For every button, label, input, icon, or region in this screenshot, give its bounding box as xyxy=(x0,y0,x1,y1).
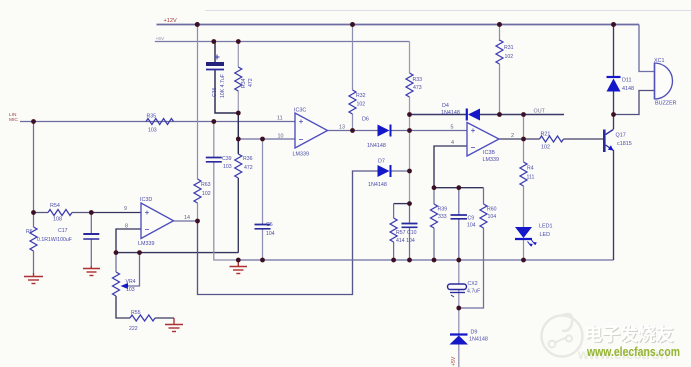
svg-text:+6V: +6V xyxy=(156,36,165,42)
svg-text:OUT: OUT xyxy=(534,109,546,115)
wire pin8 horizontal xyxy=(116,252,238,254)
svg-text:9: 9 xyxy=(124,206,127,212)
wire +6V corner down to R33 xyxy=(409,42,411,74)
resistor R31 xyxy=(496,40,514,64)
wire R33 bottom node vertical xyxy=(409,97,411,204)
resistor R34 xyxy=(235,67,254,91)
wire R60 branch xyxy=(483,188,485,204)
wire VR4 top xyxy=(115,253,117,272)
wire C17 branch xyxy=(90,213,92,234)
wire VR4 wiper xyxy=(128,253,140,286)
resistor R33 xyxy=(406,73,422,97)
resistor R36 xyxy=(235,154,253,178)
svg-text:CX2: CX2 xyxy=(468,281,478,287)
svg-text:102: 102 xyxy=(541,145,550,151)
wire IC3C output to D6 xyxy=(328,130,378,132)
potentiometer VR4 xyxy=(113,272,136,296)
svg-text:+12V: +12V xyxy=(164,18,177,24)
wire LED1 to rail xyxy=(523,239,525,260)
svg-text:R21: R21 xyxy=(541,132,551,138)
svg-text:111: 111 xyxy=(527,175,535,181)
wire D11 bottom xyxy=(613,92,615,115)
resistor R60 xyxy=(480,204,497,228)
wire pin9 line mid xyxy=(72,212,91,214)
svg-text:1N4148: 1N4148 xyxy=(441,110,460,116)
svg-text:R39: R39 xyxy=(438,207,448,213)
svg-text:www.elecfans.com: www.elecfans.com xyxy=(586,345,680,359)
wire CX2 branch xyxy=(458,260,460,284)
svg-text:C17: C17 xyxy=(58,228,68,234)
svg-text:+5V: +5V xyxy=(451,356,457,366)
diode D9 xyxy=(450,330,488,345)
wire VR4 bottom to R55 xyxy=(116,296,130,318)
svg-text:Q17: Q17 xyxy=(616,133,626,139)
svg-text:102: 102 xyxy=(202,191,211,197)
svg-text:4.7uF: 4.7uF xyxy=(467,289,480,295)
svg-text:R6: R6 xyxy=(26,229,33,235)
wire pin9 line left xyxy=(34,212,49,214)
svg-text:10: 10 xyxy=(278,134,284,140)
capacitor C6 xyxy=(255,222,275,237)
svg-text:IC3C: IC3C xyxy=(294,108,306,114)
svg-text:R4: R4 xyxy=(527,166,534,172)
svg-text:IC3B: IC3B xyxy=(483,150,495,156)
diode D11 xyxy=(607,77,635,92)
svg-text:XC1: XC1 xyxy=(654,58,665,64)
svg-text:VR4: VR4 xyxy=(126,279,136,285)
svg-text:414 104: 414 104 xyxy=(396,238,415,244)
svg-text:102: 102 xyxy=(505,54,514,60)
wire D6 cathode to pin5 xyxy=(392,130,468,132)
svg-text:R35: R35 xyxy=(147,114,157,120)
svg-text:333: 333 xyxy=(438,214,447,220)
svg-text:R55: R55 xyxy=(131,310,141,316)
svg-text:R63: R63 xyxy=(201,182,211,188)
wire IC3B output line xyxy=(499,138,540,140)
LED LED1 xyxy=(515,224,553,247)
wire C9 bottom xyxy=(458,219,460,260)
svg-text:D11: D11 xyxy=(622,78,632,84)
wire C10 bottom xyxy=(409,228,411,261)
svg-text:LM339: LM339 xyxy=(138,241,154,247)
diode D7 xyxy=(368,159,391,189)
wire +12V to R63 xyxy=(197,25,199,180)
ground at R55 xyxy=(165,318,183,332)
svg-text:104: 104 xyxy=(467,223,476,229)
capacitor C39 xyxy=(206,156,232,170)
wire R60 bottom long xyxy=(459,228,484,308)
wire R24 to LED1 xyxy=(523,186,525,227)
wire D9 bottom stub xyxy=(458,345,460,367)
resistor R55 xyxy=(129,310,155,332)
wire D4 line OUT xyxy=(410,114,467,116)
svg-text:103: 103 xyxy=(148,128,157,134)
svg-text:D9: D9 xyxy=(471,330,478,336)
diode D6 xyxy=(362,117,391,150)
svg-text:473: 473 xyxy=(413,85,422,91)
wire D7 cathode to node xyxy=(392,170,410,172)
wire R39 top xyxy=(433,188,435,204)
svg-text:LM339: LM339 xyxy=(483,157,499,163)
svg-text:104: 104 xyxy=(266,231,275,237)
svg-text:1N4148: 1N4148 xyxy=(367,143,386,149)
svg-text:电子发烧友: 电子发烧友 xyxy=(585,324,674,345)
buzzer XC1 xyxy=(654,58,677,107)
wire R36 bottom vertical xyxy=(237,178,239,253)
wire ground rail xyxy=(238,259,613,261)
svg-text:2: 2 xyxy=(511,133,514,139)
wire Q17 emitter to rail xyxy=(613,150,615,260)
resistor R39 xyxy=(431,204,448,228)
watermark logo circle xyxy=(542,314,583,356)
svg-text:C39: C39 xyxy=(222,156,232,162)
ground at R6 xyxy=(24,273,43,284)
resistor R6 xyxy=(26,227,72,251)
wire R6 bottom to ground xyxy=(33,251,35,273)
wire D4 anode to OUT end xyxy=(480,114,564,116)
wire C39 bottom to rail xyxy=(214,162,239,260)
wire OUT to IC3B out xyxy=(523,115,525,140)
svg-text:BUZZER: BUZZER xyxy=(655,101,677,107)
wire IC3D output xyxy=(174,220,198,222)
resistor R63 xyxy=(194,179,211,203)
svg-text:C36: C36 xyxy=(212,87,218,97)
svg-text:LED: LED xyxy=(540,232,551,238)
wire C36 top xyxy=(214,42,216,63)
wire pin10 line xyxy=(238,138,295,140)
op-amp IC3B xyxy=(451,123,515,164)
svg-text:102: 102 xyxy=(357,102,366,108)
+6V rail xyxy=(155,41,410,43)
wire C36 bottom L xyxy=(215,70,238,114)
svg-text:104: 104 xyxy=(488,214,497,220)
transistor Q17 xyxy=(603,129,632,152)
svg-text:R32: R32 xyxy=(356,93,366,99)
wire MIC input line xyxy=(20,121,295,123)
wire Q17 collector vertical xyxy=(613,115,615,130)
capacitor C9 xyxy=(451,215,476,229)
diode D4 xyxy=(441,103,480,121)
svg-text:108: 108 xyxy=(53,217,62,223)
svg-text:13: 13 xyxy=(339,125,345,131)
wire R58 bottom xyxy=(393,242,395,260)
svg-text:11: 11 xyxy=(277,116,283,122)
svg-text:0.1R1W/100uF: 0.1R1W/100uF xyxy=(37,237,72,243)
wire RC block top line xyxy=(434,187,484,189)
capacitor CX2 xyxy=(448,281,481,297)
resistor R54 xyxy=(48,203,72,223)
wire IC3D out down and right to D7 xyxy=(198,171,378,295)
wire D11 top xyxy=(613,25,615,78)
svg-text:D7: D7 xyxy=(378,159,385,165)
svg-text:D4: D4 xyxy=(442,103,449,109)
wire R34 bottom xyxy=(237,91,239,113)
svg-text:222: 222 xyxy=(129,326,138,332)
ground at C17 xyxy=(83,266,100,276)
resistor R58 and cap C10 xyxy=(390,218,417,244)
svg-text:R36: R36 xyxy=(243,156,253,162)
wire R6 top xyxy=(33,213,35,228)
wire R21 to Q17 base xyxy=(564,138,604,140)
op-amp IC3C xyxy=(277,108,345,158)
top page border line xyxy=(205,10,691,12)
wire pin9 line to IC3D xyxy=(91,212,141,214)
svg-text:5: 5 xyxy=(451,125,454,131)
svg-text:LM339: LM339 xyxy=(293,152,309,158)
capacitor C17 xyxy=(58,228,99,239)
wire CX2 to D9 node xyxy=(458,290,460,335)
svg-text:R60: R60 xyxy=(487,207,497,213)
+12V rail xyxy=(157,24,640,26)
svg-text:8: 8 xyxy=(125,224,128,230)
node MIC label xyxy=(9,112,18,123)
svg-text:R34: R34 xyxy=(241,78,247,88)
svg-text:1N4148: 1N4148 xyxy=(469,337,488,343)
svg-text:LED1: LED1 xyxy=(539,224,553,230)
svg-text:R33: R33 xyxy=(413,77,423,83)
wire +12V to R31 xyxy=(499,25,501,42)
svg-text:10K 4.7uF: 10K 4.7uF xyxy=(220,74,226,98)
resistor R24 xyxy=(520,162,534,186)
wire R58 C10 top line xyxy=(394,203,410,205)
svg-text:103: 103 xyxy=(223,164,232,170)
op-amp IC3D xyxy=(124,197,190,247)
wire R32 to IC3C out xyxy=(352,114,354,131)
svg-text:c1815: c1815 xyxy=(617,141,632,147)
svg-text:472: 472 xyxy=(244,165,253,171)
svg-text:472: 472 xyxy=(248,78,254,87)
watermark chinese text xyxy=(585,324,675,346)
svg-text:1N4148: 1N4148 xyxy=(368,182,387,188)
svg-text:IC3D: IC3D xyxy=(140,197,152,203)
wire left divider vertical xyxy=(33,122,35,213)
svg-text:C9: C9 xyxy=(468,216,475,222)
svg-text:R57 C10: R57 C10 xyxy=(396,230,417,236)
wire C6 bottom xyxy=(262,229,264,260)
wire C6 branch xyxy=(262,139,264,224)
wire R63 to IC3D out xyxy=(197,203,199,221)
wire +12V corner to buzzer top xyxy=(639,25,655,72)
wire R58 stubs xyxy=(393,204,395,218)
ground on rail xyxy=(230,260,248,274)
resistor R35 xyxy=(146,114,173,134)
wire C17 to ground xyxy=(90,240,92,267)
svg-text:103: 103 xyxy=(126,287,135,293)
svg-text:R54: R54 xyxy=(50,203,60,209)
svg-text:R31: R31 xyxy=(504,45,514,51)
wire C39 branch top xyxy=(213,122,215,158)
wire C10 top xyxy=(409,204,411,223)
wire node to pin10 line xyxy=(237,113,239,154)
wire R55 to ground xyxy=(155,317,174,319)
resistor R21 xyxy=(540,132,564,151)
capacitor C36 xyxy=(206,55,226,99)
wire IC3B pin4 path xyxy=(434,146,467,188)
svg-text:4148: 4148 xyxy=(622,86,634,92)
svg-text:D6: D6 xyxy=(362,117,369,123)
svg-text:4: 4 xyxy=(451,140,454,146)
svg-text:14: 14 xyxy=(184,215,190,221)
resistor R32 xyxy=(349,90,366,114)
wire R34 top xyxy=(237,42,239,68)
wire +12V to R32 xyxy=(352,25,354,91)
svg-text:MIC: MIC xyxy=(9,117,18,123)
svg-text:C6: C6 xyxy=(266,222,273,228)
wire R24 branch xyxy=(523,139,525,162)
wire buzzer bottom loop xyxy=(614,91,655,115)
wire IC3D pin8 path xyxy=(116,229,141,253)
wire R39 bottom xyxy=(433,228,435,260)
wire C9 top xyxy=(458,188,460,215)
wire R31 to OUT line xyxy=(499,64,501,115)
